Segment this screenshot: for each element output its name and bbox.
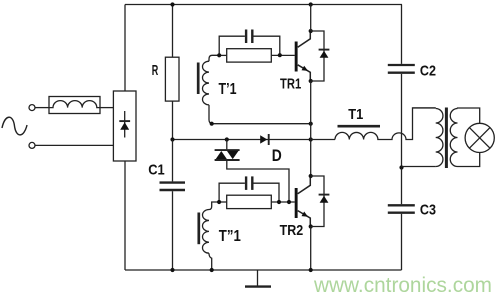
svg-text:C1: C1 [148, 162, 165, 179]
capacitor (TR2 base RC) [219, 176, 279, 202]
bridge rectifier [113, 91, 136, 161]
ground [245, 270, 271, 287]
lamp [465, 123, 494, 152]
terminal: upper input [29, 105, 35, 111]
transistor TR2 [295, 176, 311, 226]
node: middle rail / half-bridge midpoint [309, 137, 313, 141]
svg-text:T’1: T’1 [219, 81, 237, 98]
svg-text:www.cntronics.com: www.cntronics.com [313, 274, 492, 297]
capacitor (TR1 base RC) [219, 30, 280, 56]
node: C2-C3 / primary [399, 165, 403, 169]
svg-text:D: D [272, 146, 282, 165]
wire: diac to TR2 base [227, 160, 289, 202]
resistor (TR1 base RC) [219, 49, 295, 62]
terminal: lower input [29, 142, 35, 148]
svg-text:TR1: TR1 [280, 75, 301, 92]
diode across TR1 [311, 31, 330, 81]
node: TR1 emitter [309, 79, 313, 83]
resistor R [165, 5, 179, 140]
transistor TR1 [295, 31, 311, 81]
transformer T2 primary [402, 108, 443, 167]
svg-text:T”1: T”1 [219, 228, 241, 245]
node: TR2 emitter / bottom rail [309, 268, 313, 272]
AC source sine [2, 117, 27, 135]
wire: bridge top to rail [124, 5, 126, 92]
node: RC1 left [217, 53, 221, 57]
node: TR2 collector [309, 174, 313, 178]
node: RC1 right [278, 53, 282, 57]
node: middle rail / diac [225, 137, 229, 141]
node: TR2 emitter [309, 224, 313, 228]
node: diac wire / TR2 base [287, 200, 291, 204]
wire: bottom rail B- [125, 269, 402, 271]
resistor (TR2 base RC) [219, 195, 295, 208]
node: RC2 left [217, 200, 221, 204]
capacitor C3 [388, 168, 415, 271]
svg-text:R: R [152, 62, 159, 79]
node: T''1 / bottom rail [210, 268, 214, 272]
svg-text:T1: T1 [348, 106, 363, 123]
wire: TR2 emitter to bottom rail [310, 227, 312, 271]
transformer winding T'1 [198, 55, 219, 123]
svg-text:TR2: TR2 [280, 222, 304, 239]
svg-text:C2: C2 [420, 62, 436, 79]
diode D [260, 134, 269, 145]
node: midpoint / T'1 wire [309, 122, 313, 126]
capacitor C1 [160, 140, 186, 271]
transformer winding T''1 [199, 202, 219, 270]
transformer T2 secondary [450, 108, 479, 167]
wire: upper terminal to filter [35, 107, 49, 109]
wire: middle rail (R-C1 node to midpoint) [173, 139, 311, 141]
diac [215, 140, 240, 161]
wire: lower terminal to bridge [35, 144, 113, 146]
wire: filter to bridge [100, 107, 113, 109]
wire: T'1 bottom to midpoint [213, 123, 311, 125]
wire: top rail B+ [125, 4, 402, 6]
svg-text:C3: C3 [420, 201, 436, 218]
node: RC2 right [277, 200, 281, 204]
transformer T2 core [445, 108, 448, 169]
inductor T1 [311, 108, 436, 140]
node: T'1 corner dot [210, 122, 214, 126]
capacitor C2 [388, 5, 415, 168]
node: top rail / R [170, 2, 174, 6]
node: C1 / bottom rail [170, 268, 174, 272]
wire: TR1 collector up [310, 5, 312, 32]
wire: bridge bottom to rail [124, 161, 126, 270]
diode across TR2 [311, 176, 330, 227]
node: top rail / TR1 collector [309, 2, 313, 6]
node: TR1 collector [309, 29, 313, 33]
inductor L1 EMI filter (boxed) [49, 97, 100, 114]
wire: midpoint vertical [310, 81, 312, 176]
node: middle rail / R-C1 [170, 137, 174, 141]
